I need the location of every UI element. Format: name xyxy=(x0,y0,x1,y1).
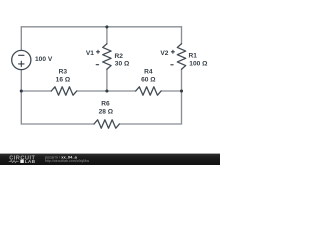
voltage source V 100V circle xyxy=(12,50,31,69)
svg-text:60 Ω: 60 Ω xyxy=(141,76,156,83)
wire R2 top lead xyxy=(106,27,108,44)
source plus sign xyxy=(19,61,24,66)
node dot left tee xyxy=(20,89,23,92)
V2 plus mark xyxy=(171,50,174,53)
wire middle left xyxy=(21,90,51,92)
svg-text:R6: R6 xyxy=(101,101,110,108)
svg-text:LAB: LAB xyxy=(25,159,36,165)
resistor R3 body xyxy=(51,87,76,95)
svg-text:100 V: 100 V xyxy=(35,56,53,63)
wire bottom rail left xyxy=(21,123,94,125)
logo square xyxy=(20,160,24,163)
svg-text:V2: V2 xyxy=(160,50,168,57)
wire middle center xyxy=(77,90,136,92)
node dot R2 top xyxy=(105,25,108,28)
wire middle right xyxy=(161,90,181,92)
wire left rail upper xyxy=(20,27,22,51)
wire bottom rail right xyxy=(119,123,181,125)
svg-text:100 Ω: 100 Ω xyxy=(189,60,208,67)
wire R2 bottom lead xyxy=(106,69,108,91)
svg-text:30 Ω: 30 Ω xyxy=(115,61,130,68)
svg-text:R4: R4 xyxy=(144,69,153,76)
V1 minus mark xyxy=(96,64,98,66)
node dot right tee xyxy=(180,89,183,92)
logo resistor zigzag xyxy=(9,160,19,162)
node dot R2 bottom xyxy=(105,89,108,92)
V1 plus mark xyxy=(97,50,100,53)
svg-text:R2: R2 xyxy=(115,53,124,60)
svg-text:R1: R1 xyxy=(189,53,198,60)
wire left rail lower xyxy=(20,70,22,124)
wire right rail upper xyxy=(181,27,183,44)
svg-text:V1: V1 xyxy=(86,50,94,57)
svg-text:http://circuitlab.com/c9q84w: http://circuitlab.com/c9q84w xyxy=(45,159,90,163)
svg-text:28 Ω: 28 Ω xyxy=(99,109,114,116)
resistor R4 body xyxy=(136,87,161,95)
wire top rail xyxy=(21,26,181,28)
svg-text:16 Ω: 16 Ω xyxy=(56,76,71,83)
svg-text:R3: R3 xyxy=(59,68,68,75)
resistor R1 body xyxy=(177,44,185,69)
wire right rail lower xyxy=(181,69,183,124)
resistor R6 body xyxy=(94,120,119,128)
resistor R2 body xyxy=(103,44,111,69)
V2 minus mark xyxy=(171,64,173,66)
source minus sign xyxy=(19,54,24,56)
